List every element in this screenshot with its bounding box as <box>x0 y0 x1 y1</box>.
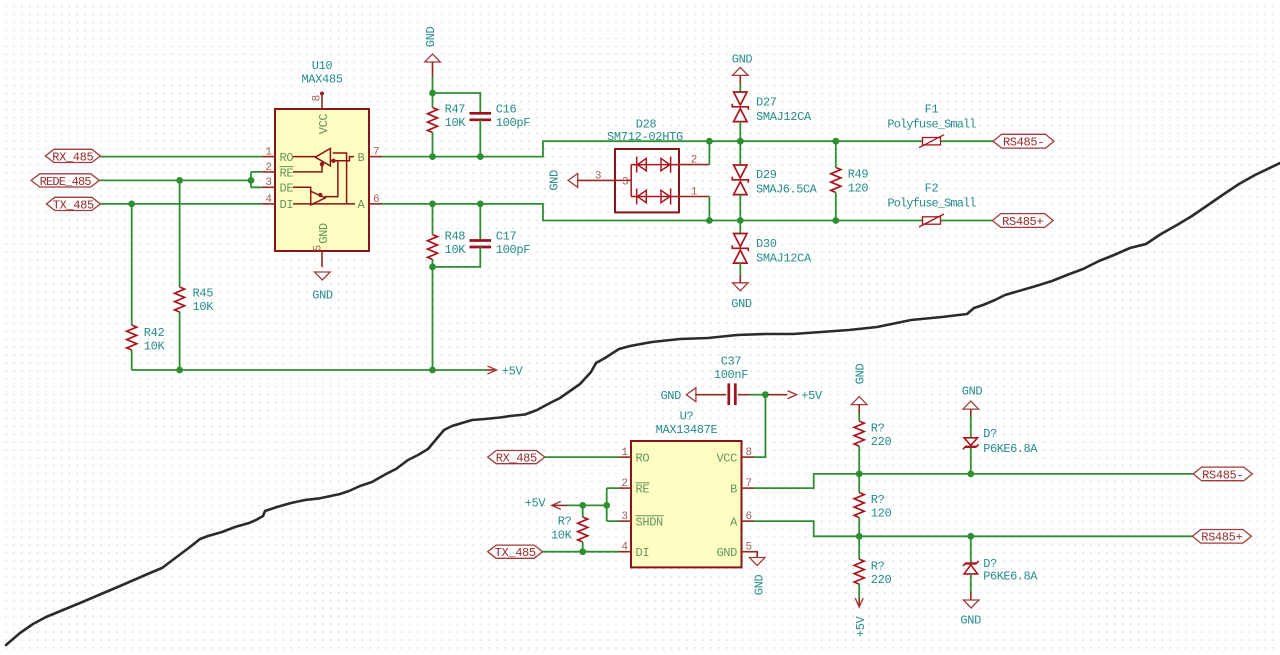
label RS485+ top <box>992 214 1053 229</box>
wire REDE_485 to junction <box>99 179 251 181</box>
svg-text:+5V: +5V <box>502 365 524 379</box>
svg-text:120: 120 <box>871 507 892 521</box>
D28 internal diode bottom-right <box>661 189 671 205</box>
label REDE_485 <box>31 174 99 189</box>
wire net A from pin6 <box>382 204 922 221</box>
svg-text:GND: GND <box>752 575 766 596</box>
svg-text:5: 5 <box>746 542 753 554</box>
ground GND under U10 <box>312 272 333 303</box>
D28 internal diode top-left <box>637 157 647 173</box>
wire +5V rail <box>132 369 486 371</box>
resistor R? 120 <box>854 474 891 536</box>
wire TX to pin4 <box>543 551 619 553</box>
wire pin6 A to bus <box>754 521 1192 536</box>
svg-text:4: 4 <box>621 542 628 554</box>
label RX_485 bottom <box>488 451 545 466</box>
svg-text:C37: C37 <box>721 355 742 369</box>
svg-text:100nF: 100nF <box>714 368 748 382</box>
capacitor C16 <box>470 103 531 157</box>
power +5V at RE/SHDN <box>525 496 607 510</box>
svg-text:8: 8 <box>746 447 753 459</box>
svg-text:3: 3 <box>595 170 602 182</box>
svg-text:R?: R? <box>871 560 885 574</box>
ground GND below D? bottom <box>960 592 981 627</box>
wire REDE down to R45 <box>179 180 181 370</box>
svg-text:100pF: 100pF <box>496 116 530 130</box>
U10 pin 6 A <box>358 194 383 212</box>
svg-text:D?: D? <box>983 427 997 441</box>
ground GND left of C37 <box>660 388 726 403</box>
svg-text:3: 3 <box>621 511 628 523</box>
svg-text:DI: DI <box>636 546 650 560</box>
label RS485- bottom <box>1193 467 1252 482</box>
svg-text:RO: RO <box>280 151 294 165</box>
svg-text:D27: D27 <box>756 96 777 110</box>
ground GND at U? pin5 <box>749 552 766 596</box>
svg-text:10K: 10K <box>193 300 215 314</box>
svg-text:R48: R48 <box>445 230 466 244</box>
resistor R47 <box>428 103 467 157</box>
svg-text:5: 5 <box>313 245 325 252</box>
svg-text:SMAJ12CA: SMAJ12CA <box>756 252 812 266</box>
svg-text:GND: GND <box>960 613 981 627</box>
svg-text:P6KE6.8A: P6KE6.8A <box>983 442 1038 456</box>
svg-text:D30: D30 <box>756 237 777 251</box>
U10 pin 2 RE <box>262 162 294 181</box>
IC U? MAX13487E body <box>631 410 742 568</box>
ground GND below D30 <box>731 275 752 311</box>
wire C17/R48 bottom corner down to rail <box>433 247 481 370</box>
svg-text:RS485+: RS485+ <box>1201 531 1242 545</box>
U? pin 2 RE <box>619 478 650 496</box>
svg-text:VCC: VCC <box>716 451 737 465</box>
svg-text:C16: C16 <box>496 103 517 117</box>
svg-text:GND: GND <box>424 27 438 48</box>
svg-text:RS485+: RS485+ <box>1002 215 1043 229</box>
svg-text:TX_485: TX_485 <box>495 546 536 560</box>
U? pin 5 GND <box>716 542 754 560</box>
label RS485+ bottom <box>1192 530 1251 545</box>
U10 internal junction dots <box>320 162 324 166</box>
svg-text:R45: R45 <box>193 287 214 301</box>
svg-text:GND: GND <box>547 170 561 191</box>
svg-text:R?: R? <box>558 515 572 529</box>
svg-text:B: B <box>730 482 737 496</box>
svg-text:+5V: +5V <box>525 496 547 510</box>
ground GND above D27 <box>732 53 753 93</box>
svg-text:8: 8 <box>312 95 324 102</box>
power +5V right of C37 <box>765 389 823 403</box>
ground GND at D28 pin3 <box>547 170 615 191</box>
svg-text:1: 1 <box>265 147 272 159</box>
fuse F1 Polyfuse_Small <box>887 103 993 148</box>
D28 internal diode bottom-left <box>637 189 647 205</box>
resistor R48 <box>428 204 467 267</box>
svg-text:10K: 10K <box>445 116 467 130</box>
svg-text:B: B <box>358 151 365 165</box>
wire RE/DE tie bracket <box>251 172 262 187</box>
junction dots bottom circuit <box>579 391 974 555</box>
wire RE/SHDN tie bracket <box>607 488 619 521</box>
svg-text:GND: GND <box>660 389 681 403</box>
svg-text:A: A <box>358 198 366 212</box>
freehand divider curve <box>6 163 1280 645</box>
svg-text:6: 6 <box>373 194 380 206</box>
svg-text:+5V: +5V <box>801 389 823 403</box>
svg-text:3: 3 <box>622 176 629 188</box>
wire net B from pin7 <box>382 141 922 156</box>
svg-text:GND: GND <box>854 364 868 385</box>
resistor R? 220 top <box>854 421 891 474</box>
wire TX_485 to pin4 <box>100 203 261 205</box>
svg-text:U10: U10 <box>312 59 333 73</box>
svg-text:RX_485: RX_485 <box>496 452 537 466</box>
svg-text:F1: F1 <box>925 103 939 117</box>
svg-text:RS485-: RS485- <box>1202 468 1243 482</box>
capacitor C37 100nF <box>714 355 766 406</box>
svg-text:GND: GND <box>962 385 983 399</box>
wire VCC to C37 junction <box>754 395 765 457</box>
svg-text:100pF: 100pF <box>496 243 530 257</box>
U10 pin 8 VCC <box>312 92 331 135</box>
ground GND top of R47 <box>424 27 440 108</box>
svg-text:P6KE6.8A: P6KE6.8A <box>983 570 1038 584</box>
wire corner to C16 top <box>433 93 481 113</box>
ground GND above D? top <box>962 385 983 438</box>
wire TX down to R42 <box>131 204 133 370</box>
resistor R? 220 bottom <box>854 536 891 598</box>
U10 pin 5 GND <box>313 223 331 267</box>
svg-text:2: 2 <box>691 155 698 167</box>
svg-text:Polyfuse_Small: Polyfuse_Small <box>887 118 976 132</box>
svg-text:R47: R47 <box>445 103 466 117</box>
svg-text:MAX485: MAX485 <box>301 73 342 87</box>
svg-text:SMAJ12CA: SMAJ12CA <box>756 110 812 124</box>
U10 internal receiver buffer <box>293 148 354 204</box>
power +5V below R?220 bottom <box>854 598 868 637</box>
IC U10 MAX485 body <box>275 59 369 251</box>
U? pin 4 DI <box>619 542 650 560</box>
svg-text:1: 1 <box>691 186 698 198</box>
U10 pin 7 B <box>358 147 383 165</box>
resistor R45 <box>175 287 215 315</box>
U? pin 3 SHDN <box>619 511 664 529</box>
IC D28 SM712-02HTG body <box>607 118 683 213</box>
svg-text:DI: DI <box>280 198 294 212</box>
resistor R? 10K <box>551 505 588 551</box>
svg-text:RE: RE <box>636 482 650 496</box>
D28 internal structure <box>615 165 679 197</box>
U10 pin 3 DE <box>262 177 294 195</box>
svg-text:220: 220 <box>871 435 892 449</box>
svg-text:R42: R42 <box>144 326 165 340</box>
svg-text:RS485-: RS485- <box>1003 136 1044 150</box>
wire RX to pin1 <box>545 456 619 458</box>
svg-text:10K: 10K <box>551 529 573 543</box>
diode D? P6KE6.8A top <box>963 427 1038 474</box>
svg-text:D29: D29 <box>756 168 777 182</box>
U? pin 1 RO <box>619 447 650 465</box>
diode D? P6KE6.8A bottom <box>963 536 1038 592</box>
junction dots top circuit <box>128 90 839 374</box>
svg-text:RO: RO <box>636 451 650 465</box>
svg-text:R?: R? <box>871 493 885 507</box>
svg-text:MAX13487E: MAX13487E <box>656 423 718 437</box>
svg-text:C17: C17 <box>496 230 517 244</box>
svg-text:3: 3 <box>265 177 272 189</box>
svg-text:REDE_485: REDE_485 <box>40 175 92 189</box>
resistor R49 120 <box>831 141 869 220</box>
svg-text:220: 220 <box>871 573 892 587</box>
svg-text:GND: GND <box>731 297 752 311</box>
U? pin 8 VCC <box>716 447 754 465</box>
svg-text:A: A <box>730 515 738 529</box>
wire pin7 B to bus <box>754 474 1193 488</box>
svg-text:7: 7 <box>373 147 380 159</box>
svg-text:10K: 10K <box>445 243 467 257</box>
svg-text:R49: R49 <box>848 168 869 182</box>
U10 pin 4 DI <box>262 194 293 212</box>
svg-text:F2: F2 <box>925 182 939 196</box>
svg-text:U?: U? <box>680 410 694 424</box>
svg-text:6: 6 <box>746 511 753 523</box>
svg-text:RE: RE <box>280 166 294 180</box>
svg-text:GND: GND <box>312 289 333 303</box>
D28 internal diode top-right <box>661 157 671 173</box>
U? pin 7 B <box>730 478 754 496</box>
svg-text:2: 2 <box>621 478 628 490</box>
power +5V arrow top rail <box>486 365 524 379</box>
svg-text:DE: DE <box>280 182 294 196</box>
svg-text:GND: GND <box>716 546 737 560</box>
label RS485- top <box>993 134 1054 149</box>
diode D29 SMAJ6.5CA <box>732 141 817 220</box>
label TX_485 bottom <box>488 545 543 560</box>
svg-text:10K: 10K <box>144 340 166 354</box>
svg-text:TX_485: TX_485 <box>53 198 94 212</box>
wire RX_485 to pin1 <box>100 156 261 158</box>
U10 internal driver buffer <box>293 187 355 205</box>
svg-text:RX_485: RX_485 <box>52 150 93 164</box>
svg-text:120: 120 <box>848 181 869 195</box>
svg-text:Polyfuse_Small: Polyfuse_Small <box>887 197 976 211</box>
D28 pin 2 <box>679 141 709 166</box>
label RX_485 <box>45 149 100 164</box>
svg-text:SM712-02HTG: SM712-02HTG <box>607 130 683 144</box>
resistor R42 <box>127 325 166 354</box>
svg-text:GND: GND <box>317 223 331 244</box>
svg-text:+5V: +5V <box>854 615 868 637</box>
label TX_485 <box>46 197 100 212</box>
D28 pin 1 <box>679 186 709 220</box>
svg-text:7: 7 <box>746 478 753 490</box>
svg-text:SHDN: SHDN <box>636 515 664 529</box>
svg-text:SMAJ6.5CA: SMAJ6.5CA <box>756 183 818 197</box>
fuse F2 Polyfuse_Small <box>887 182 992 228</box>
U? pin 6 A <box>730 511 754 529</box>
ground GND above R?220 top <box>851 364 867 422</box>
svg-text:VCC: VCC <box>317 114 331 135</box>
diode D30 SMAJ12CA <box>732 221 812 276</box>
svg-text:2: 2 <box>265 162 272 174</box>
capacitor C17 <box>470 204 531 257</box>
svg-text:GND: GND <box>732 53 753 67</box>
svg-text:1: 1 <box>621 447 628 459</box>
svg-text:R?: R? <box>871 422 885 436</box>
diode D27 SMAJ12CA <box>732 92 812 141</box>
svg-text:4: 4 <box>265 194 272 206</box>
U10 pin 1 RO <box>262 147 294 165</box>
